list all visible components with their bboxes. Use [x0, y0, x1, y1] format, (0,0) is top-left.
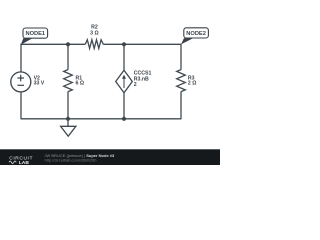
svg-text:LAB: LAB [19, 160, 30, 165]
resistor R2 [85, 24, 103, 48]
svg-text:2: 2 [134, 82, 137, 88]
svg-text:NODE2: NODE2 [186, 31, 206, 37]
junction dot bottom ground [66, 117, 70, 121]
wire CCCS1 top lead [123, 44, 125, 70]
svg-text:33 V: 33 V [34, 81, 45, 87]
wire CCCS1 bottom lead [123, 93, 125, 120]
node NODE1 flag [21, 28, 48, 45]
wire top rail right segment [103, 44, 181, 69]
svg-text:6 Ω: 6 Ω [76, 81, 85, 87]
svg-text:2 Ω: 2 Ω [188, 81, 197, 87]
node NODE2 flag [181, 28, 208, 45]
resistor R3 [177, 70, 197, 92]
wire V2 bottom lead [20, 92, 22, 119]
junction dot top R1 [66, 42, 70, 46]
footer bar [0, 149, 220, 165]
resistor R1 [64, 70, 84, 92]
junction dot bottom CCCS1 [122, 117, 126, 121]
ground [61, 119, 76, 136]
wire R1 top lead [67, 44, 69, 69]
wire bottom rail [21, 118, 181, 120]
current-controlled current source CCCS1 [116, 70, 152, 93]
wire R3 bottom lead [180, 92, 182, 120]
footer CircuitLab logo [9, 156, 33, 167]
svg-text:NODE1: NODE1 [25, 31, 45, 37]
wire top rail left segment [21, 44, 85, 72]
voltage source V2 [11, 72, 45, 92]
svg-text:3 Ω: 3 Ω [90, 30, 99, 36]
junction dot top CCCS1 [122, 42, 126, 46]
wire R1 bottom lead [67, 92, 69, 120]
svg-text:http://circuitlab.com/c6t8h26b: http://circuitlab.com/c6t8h26b [45, 158, 98, 163]
